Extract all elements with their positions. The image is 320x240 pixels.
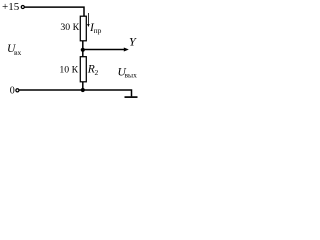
current arrow Ipr [87, 13, 90, 27]
resistor R1 30K [80, 16, 86, 41]
ground [125, 96, 138, 98]
wire Y output from node [83, 49, 125, 51]
svg-text:вх: вх [14, 48, 22, 57]
wire top rail from +15 terminal to R1 [25, 7, 85, 16]
svg-text:+15: +15 [2, 1, 20, 13]
svg-text:вых: вых [125, 71, 138, 80]
node junction dot [81, 48, 85, 52]
resistor R2 10K [80, 57, 86, 82]
wire node to R2 top [82, 50, 84, 57]
wire R2 bottom to bottom rail [82, 82, 84, 91]
wire R1 bottom to node [82, 41, 84, 51]
arrow Y output [124, 48, 129, 52]
svg-text:0: 0 [10, 85, 15, 96]
svg-text:10 К: 10 К [59, 64, 78, 75]
svg-text:30 К: 30 К [60, 22, 79, 33]
terminal 0 [16, 89, 19, 92]
svg-text:пр: пр [94, 26, 102, 35]
terminal +15 [21, 5, 24, 8]
svg-text:2: 2 [95, 68, 99, 77]
node junction dot bottom [81, 88, 85, 92]
wire bottom rail from 0 terminal to ground corner [19, 90, 131, 96]
